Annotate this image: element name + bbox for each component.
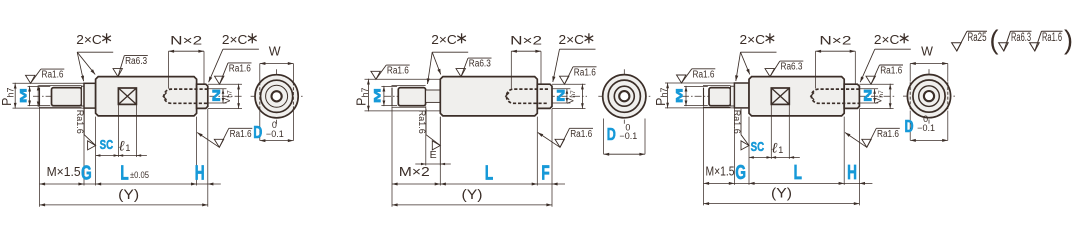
chamfer note 2xC left d3 bbox=[741, 51, 777, 53]
N dimension arrows d3 bbox=[874, 89, 876, 103]
surface symbol Ra6.3 d1 bbox=[113, 69, 122, 77]
svg-text:1: 1 bbox=[125, 143, 130, 153]
centerline d3 bbox=[682, 95, 895, 97]
svg-text:Ra6.3: Ra6.3 bbox=[1011, 32, 1031, 44]
svg-text:2×C: 2×C bbox=[222, 33, 248, 47]
SC and l1 extension verticals d3 bbox=[770, 105, 772, 159]
svg-text:W: W bbox=[921, 45, 933, 59]
dimension extension verticals d1 bbox=[39, 106, 41, 207]
svg-text:M: M bbox=[373, 88, 383, 103]
svg-text:Ra1.6: Ra1.6 bbox=[731, 110, 742, 134]
surface symbol Ra1.6 left d2 bbox=[371, 71, 380, 79]
V extension lines d1 bbox=[208, 83, 242, 85]
legend symbol Ra1.6 bbox=[1030, 43, 1040, 51]
surface symbol Ra1.6 right d2 bbox=[560, 76, 569, 84]
chamfer note 2xC left d1 bbox=[77, 51, 113, 53]
svg-text:1: 1 bbox=[778, 145, 783, 155]
svg-text:(Y): (Y) bbox=[118, 187, 139, 202]
M major dimension arrows d1 bbox=[37, 85, 39, 107]
svg-text:L: L bbox=[485, 162, 493, 184]
svg-text:Ra1.6: Ra1.6 bbox=[229, 64, 251, 75]
SC and l1 extension verticals d1 bbox=[117, 105, 119, 157]
thread major diameter lines d2 bbox=[392, 84, 426, 86]
svg-text:D: D bbox=[607, 125, 616, 145]
dimension extension verticals d3 bbox=[703, 106, 705, 205]
svg-text:Ra25: Ra25 bbox=[968, 32, 987, 44]
M dimension line d1 bbox=[29, 86, 31, 106]
tapped hole hidden lines d1 bbox=[164, 89, 208, 103]
legend symbol Ra25 bbox=[952, 43, 962, 51]
svg-text:): ) bbox=[1064, 25, 1073, 55]
legend symbol Ra6.3 bbox=[999, 43, 1009, 51]
E extension verticals d2 bbox=[425, 106, 427, 165]
M thread extension lines d1 bbox=[28, 85, 51, 87]
svg-text:Ra1.6: Ra1.6 bbox=[693, 69, 715, 80]
P diameter extension lines d2 bbox=[365, 78, 441, 80]
M thread extension lines d3 bbox=[684, 85, 708, 87]
end view centerlines d3 bbox=[903, 95, 955, 97]
M thread extension lines d2 bbox=[381, 85, 397, 87]
V extension lines d3 bbox=[859, 83, 893, 85]
thread neck d3 bbox=[731, 86, 735, 106]
surface symbol Ra1.6 right d1 bbox=[215, 76, 224, 84]
svg-text:Ra1.6: Ra1.6 bbox=[880, 66, 902, 77]
W dimension d1 bbox=[259, 64, 261, 82]
svg-text:0.1: 0.1 bbox=[923, 123, 936, 133]
P dimension line d2 bbox=[367, 79, 369, 112]
chamfer note 2xC left d2 bbox=[432, 51, 468, 53]
P diameter extension lines d3 bbox=[665, 82, 734, 84]
leader Ra1.6 lower right d1 bbox=[197, 133, 219, 148]
dimension row 1 d2 bbox=[392, 183, 565, 185]
svg-text:Ra1.6: Ra1.6 bbox=[877, 129, 899, 140]
chamfer note 2xC right d2 bbox=[560, 48, 596, 50]
centerline d2 bbox=[384, 95, 587, 97]
tapped hole hidden lines d2 bbox=[506, 89, 548, 103]
svg-text:H: H bbox=[847, 161, 857, 183]
svg-text:0.1: 0.1 bbox=[625, 131, 638, 141]
svg-text:0.1: 0.1 bbox=[271, 129, 284, 139]
end view circles d2 bbox=[603, 75, 646, 118]
set screw cross box d1 bbox=[118, 88, 136, 104]
svg-text:G: G bbox=[735, 161, 746, 183]
svg-text:2×C: 2×C bbox=[76, 33, 102, 47]
svg-text:(: ( bbox=[990, 25, 999, 55]
N hole extension lines d3 bbox=[859, 88, 878, 90]
svg-text:M×2: M×2 bbox=[399, 164, 430, 179]
P diameter extension lines d1 bbox=[13, 82, 85, 84]
chamfer note 2xC right d3 bbox=[875, 48, 911, 50]
main body D d1 bbox=[96, 77, 197, 116]
surface symbol Ra1.6 right d3 bbox=[866, 76, 875, 84]
thread tip face d3 bbox=[703, 88, 705, 106]
svg-text:SC: SC bbox=[100, 137, 114, 152]
D dimension d1 bbox=[259, 111, 261, 141]
N depth dimension Nx2 d3 bbox=[815, 51, 817, 88]
end view circles d1 bbox=[255, 75, 298, 118]
N depth dimension Nx2 d2 bbox=[510, 51, 512, 88]
P dimension line d1 bbox=[14, 83, 16, 109]
centerline d1 bbox=[33, 95, 243, 97]
svg-text:Ra1.6: Ra1.6 bbox=[387, 66, 409, 77]
main body D d3 bbox=[749, 77, 844, 116]
svg-text:Ra1.6: Ra1.6 bbox=[1042, 32, 1062, 44]
leader Ra1.6 lower right d3 bbox=[845, 133, 867, 148]
leader Ra1.6 lower right d2 bbox=[538, 133, 560, 148]
end view circles d3 bbox=[907, 75, 950, 118]
svg-text:N×2: N×2 bbox=[170, 36, 202, 48]
svg-text:Ra6.3: Ra6.3 bbox=[469, 59, 491, 70]
svg-text:Ra1.6: Ra1.6 bbox=[74, 110, 85, 134]
N hole extension lines d1 bbox=[208, 88, 227, 90]
end view centerlines d1 bbox=[251, 95, 303, 97]
N dimension arrows d2 bbox=[566, 89, 568, 103]
svg-text:ℓ: ℓ bbox=[772, 140, 778, 156]
dimension row 1 d1 bbox=[40, 183, 221, 185]
svg-text:D: D bbox=[253, 123, 262, 143]
svg-text:SC: SC bbox=[751, 139, 765, 154]
dimension row 1 d3 bbox=[704, 182, 873, 184]
wrench flats dashed d3 bbox=[909, 82, 911, 110]
set screw cross box d3 bbox=[771, 88, 789, 104]
svg-text:(Y): (Y) bbox=[771, 186, 792, 201]
thread neck d1 bbox=[82, 86, 85, 106]
svg-text:Ra1.6: Ra1.6 bbox=[42, 70, 64, 81]
V dimension line d2 bbox=[581, 84, 583, 109]
svg-text:(Y): (Y) bbox=[462, 187, 483, 202]
M dimension line d2 bbox=[383, 86, 385, 106]
svg-text:±0.05: ±0.05 bbox=[130, 170, 149, 180]
svg-text:M×1.5: M×1.5 bbox=[47, 164, 81, 179]
svg-text:ℓ: ℓ bbox=[119, 139, 125, 155]
chamfer note 2xC right d1 bbox=[223, 48, 259, 50]
M dimension line d3 bbox=[685, 86, 687, 106]
surface symbol Ra6.3 d2 bbox=[456, 69, 465, 77]
thread major diameter lines d1 bbox=[39, 84, 82, 86]
V extension lines d2 bbox=[552, 83, 586, 85]
overall dimension Y d3 bbox=[704, 203, 860, 205]
svg-text:G: G bbox=[81, 162, 92, 184]
svg-text:F: F bbox=[541, 162, 549, 184]
V dimension line d1 bbox=[238, 84, 240, 109]
svg-text:N×2: N×2 bbox=[819, 36, 851, 48]
svg-text:Ra1.6: Ra1.6 bbox=[570, 129, 592, 140]
svg-text:2×C: 2×C bbox=[559, 33, 585, 47]
tapped hole hidden lines d3 bbox=[811, 89, 859, 103]
right stub V d3 bbox=[844, 84, 859, 108]
svg-text:E: E bbox=[430, 149, 437, 161]
svg-text:L: L bbox=[120, 162, 128, 184]
svg-text:Ra6.3: Ra6.3 bbox=[781, 62, 803, 73]
right stub V d2 bbox=[537, 84, 552, 108]
svg-text:M×1.5: M×1.5 bbox=[706, 163, 735, 178]
collar P d1 bbox=[84, 83, 96, 108]
threaded stub M d3 bbox=[709, 88, 731, 106]
surface symbol Ra6.3 d3 bbox=[765, 69, 774, 77]
svg-text:Ra6.3: Ra6.3 bbox=[125, 56, 147, 67]
svg-text:2×C: 2×C bbox=[431, 33, 457, 47]
SC dimension d1 bbox=[96, 155, 147, 157]
rotated surface symbol Ra1.6 d2 bbox=[432, 141, 440, 150]
main body D d2 bbox=[440, 77, 537, 116]
V dimension line d3 bbox=[889, 84, 891, 109]
svg-text:L: L bbox=[794, 161, 802, 183]
svg-text:Ra1.6: Ra1.6 bbox=[230, 129, 252, 140]
svg-text:W: W bbox=[269, 45, 281, 59]
surface symbol Ra1.6 left d1 bbox=[26, 75, 35, 83]
thread tip face d1 bbox=[39, 88, 41, 106]
SC dimension d3 bbox=[749, 156, 800, 158]
rotated surface symbol Ra1.6 d3 bbox=[741, 141, 749, 150]
thread major diameter lines d3 bbox=[703, 84, 731, 86]
right stub V d1 bbox=[197, 84, 208, 108]
end view centerlines d2 bbox=[598, 95, 650, 97]
overall dimension Y d2 bbox=[392, 204, 552, 206]
N hole extension lines d2 bbox=[552, 88, 570, 90]
threaded stub M d2 bbox=[398, 88, 425, 106]
N depth dimension Nx2 d1 bbox=[168, 51, 170, 88]
E dimension d2 bbox=[415, 163, 451, 165]
svg-text:N×2: N×2 bbox=[510, 36, 542, 48]
svg-text:Ra1.6: Ra1.6 bbox=[416, 110, 427, 134]
threaded stub M d1 bbox=[52, 88, 82, 106]
surface symbol Ra1.6 left d3 bbox=[677, 75, 686, 83]
svg-text:2×C: 2×C bbox=[874, 33, 900, 47]
thread tip face d2 bbox=[391, 88, 393, 106]
svg-text:H: H bbox=[195, 162, 205, 184]
svg-text:D: D bbox=[905, 117, 914, 137]
svg-text:M: M bbox=[674, 88, 684, 103]
overall dimension Y d1 bbox=[40, 204, 208, 206]
W dimension d3 bbox=[909, 64, 911, 82]
dimension extension verticals d2 bbox=[391, 106, 393, 207]
svg-text:Ra1.6: Ra1.6 bbox=[574, 67, 596, 78]
thread neck d2 bbox=[426, 90, 441, 102]
D dimension d2 bbox=[603, 119, 605, 155]
P dimension line d3 bbox=[667, 83, 669, 109]
D dimension d3 bbox=[909, 111, 911, 141]
N dimension arrows d1 bbox=[222, 89, 224, 103]
svg-text:M: M bbox=[19, 88, 29, 103]
collar P d3 bbox=[734, 83, 749, 108]
rotated surface symbol Ra1.6 d1 bbox=[88, 141, 96, 150]
svg-text:2×C: 2×C bbox=[740, 33, 766, 47]
wrench flats dashed d1 bbox=[259, 82, 261, 110]
